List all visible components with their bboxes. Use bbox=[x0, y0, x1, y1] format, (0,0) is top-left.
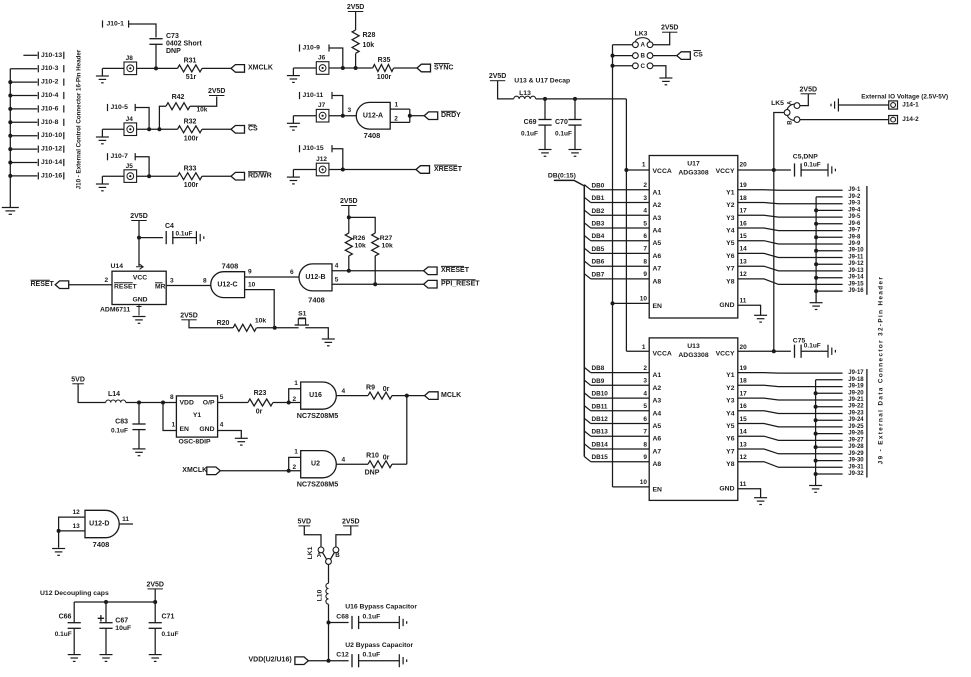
svg-text:A2: A2 bbox=[653, 202, 662, 209]
capacitor C83 bbox=[132, 424, 145, 430]
svg-text:Y5: Y5 bbox=[726, 423, 735, 430]
jumper LK3 A right bbox=[647, 42, 653, 48]
wire U17 Y8 to J9-15 bbox=[738, 279, 843, 285]
port PPI_RESET out bbox=[424, 280, 438, 288]
svg-text:J10-7: J10-7 bbox=[111, 153, 129, 160]
svg-text:Y4: Y4 bbox=[726, 228, 735, 235]
ground at U12-D bbox=[52, 549, 65, 556]
wire C4 to gnd bbox=[173, 237, 197, 239]
ground at Y1 bbox=[235, 438, 248, 445]
wire R35 to port bbox=[394, 67, 417, 69]
junction XMCLK node bbox=[154, 66, 158, 70]
junction J10-5 node bbox=[147, 127, 151, 131]
svg-text:C71: C71 bbox=[162, 613, 175, 620]
wire U17 Y2 to J9-3 bbox=[738, 203, 843, 204]
junction J10 bus J10-6 bbox=[8, 107, 12, 111]
wire J9-10 gnd stub bbox=[816, 250, 843, 252]
svg-text:U12-A: U12-A bbox=[363, 112, 383, 119]
resistor R35 bbox=[373, 65, 394, 72]
wire J9-4 gnd stub bbox=[816, 209, 843, 211]
svg-text:J9 - External Data Connector 3: J9 - External Data Connector 32-Pin Head… bbox=[878, 276, 885, 465]
junction J9 gnd 22 bbox=[814, 405, 818, 409]
svg-text:1: 1 bbox=[294, 380, 298, 387]
svg-text:A4: A4 bbox=[653, 228, 662, 235]
ground at C71 bbox=[149, 655, 162, 662]
wire gnd stem J12 bbox=[292, 170, 294, 178]
connector pin J10-6 bbox=[10, 108, 37, 110]
wire C75 to gnd bbox=[801, 350, 828, 352]
wire net DB13 bbox=[584, 431, 590, 436]
ground at U13 bbox=[754, 498, 767, 505]
svg-text:7408: 7408 bbox=[222, 262, 239, 271]
svg-text:10: 10 bbox=[640, 296, 648, 303]
wire J10-15 down bbox=[332, 149, 343, 170]
svg-text:J10-11: J10-11 bbox=[303, 92, 324, 99]
svg-text:0r: 0r bbox=[383, 455, 390, 462]
wire node to Y1 VDD bbox=[163, 402, 176, 404]
svg-text:B: B bbox=[787, 120, 793, 125]
svg-text:C69: C69 bbox=[524, 119, 537, 126]
svg-text:C68: C68 bbox=[336, 613, 349, 620]
ground at J9 upper bbox=[810, 303, 823, 310]
wire L10 down to C12 bbox=[328, 604, 330, 661]
wire U13 Y5 to J9-25 bbox=[738, 424, 843, 427]
svg-text:14: 14 bbox=[740, 429, 748, 436]
svg-text:J9-27: J9-27 bbox=[848, 437, 864, 443]
wire U12-A pin2 bbox=[390, 121, 410, 123]
svg-text:0.1uF: 0.1uF bbox=[521, 131, 538, 138]
wire net DB9 bbox=[584, 380, 590, 385]
svg-text:R10: R10 bbox=[366, 453, 379, 460]
wire 2V5D to L13 bbox=[498, 81, 514, 99]
svg-text:J9-24: J9-24 bbox=[848, 417, 864, 423]
wire J9-26 gnd stub bbox=[816, 433, 843, 435]
wire net DB0 bbox=[584, 185, 590, 190]
svg-text:19: 19 bbox=[740, 182, 748, 189]
ground sideways at C75 bbox=[828, 345, 835, 358]
svg-text:2: 2 bbox=[643, 182, 647, 189]
svg-text:RD/WR: RD/WR bbox=[248, 173, 272, 180]
inductor L14 bbox=[106, 400, 126, 403]
junction LK3 B bbox=[611, 54, 615, 58]
svg-text:VCC: VCC bbox=[133, 274, 147, 281]
svg-text:A7: A7 bbox=[653, 266, 662, 273]
svg-text:11: 11 bbox=[122, 516, 129, 523]
svg-text:3: 3 bbox=[643, 378, 647, 385]
svg-text:2: 2 bbox=[643, 365, 647, 372]
junction J9 gnd 20 bbox=[814, 391, 818, 395]
wire R10 to MCLK node bbox=[392, 463, 407, 465]
port CS at LK3 bbox=[677, 52, 691, 60]
wire J9-16 gnd stub bbox=[816, 290, 843, 292]
connector J12 bbox=[316, 163, 329, 176]
wire LK3 C to gnd bbox=[653, 66, 666, 78]
wire net DB15 bbox=[584, 457, 590, 462]
svg-text:4: 4 bbox=[643, 208, 647, 215]
wire U14 pin3 to U12-C bbox=[166, 285, 211, 287]
svg-text:R20: R20 bbox=[217, 320, 230, 327]
svg-text:A8: A8 bbox=[653, 461, 662, 468]
wire XMCLK to U2 bbox=[221, 470, 301, 472]
junction R26 pin4 bbox=[347, 269, 351, 273]
jumper LK3 C right bbox=[647, 63, 653, 69]
junction J10-9 node bbox=[341, 66, 345, 70]
jumper LK1 common bbox=[326, 559, 332, 565]
svg-text:8: 8 bbox=[643, 259, 647, 266]
svg-text:J9-9: J9-9 bbox=[848, 241, 861, 247]
svg-text:J10-14: J10-14 bbox=[41, 159, 62, 166]
connector pin J10-2 bbox=[10, 81, 37, 83]
svg-text:Y3: Y3 bbox=[726, 215, 735, 222]
svg-text:2V5D: 2V5D bbox=[146, 581, 164, 588]
svg-text:Y7: Y7 bbox=[726, 449, 735, 456]
wire to C67 bbox=[105, 602, 107, 623]
wire to R27 bbox=[349, 217, 375, 233]
wire J8 to R31 bbox=[137, 67, 178, 69]
wire U17 Y7 to J9-13 bbox=[738, 266, 843, 271]
svg-text:J9-29: J9-29 bbox=[848, 451, 864, 457]
wire LK1 leg A bbox=[323, 552, 327, 559]
port CS out bbox=[231, 126, 245, 134]
svg-text:O/P: O/P bbox=[203, 399, 215, 406]
svg-text:11: 11 bbox=[740, 297, 747, 304]
svg-text:A8: A8 bbox=[653, 278, 662, 285]
svg-text:J10-10: J10-10 bbox=[41, 132, 62, 139]
plus sign C67 bbox=[98, 615, 104, 621]
junction J9 gnd 24 bbox=[814, 418, 818, 422]
wire LK1 leg B bbox=[331, 552, 335, 559]
jumper LK3 B right bbox=[647, 53, 653, 59]
wire U12-A pin1 bbox=[390, 108, 410, 110]
resistor R10 bbox=[368, 461, 392, 468]
resistor R31 bbox=[178, 65, 203, 72]
svg-text:GND: GND bbox=[719, 486, 734, 493]
junction J9 gnd 8 bbox=[814, 235, 818, 239]
junction R20 S1 bbox=[273, 326, 277, 330]
svg-text:Y3: Y3 bbox=[726, 398, 735, 405]
svg-text:2: 2 bbox=[105, 277, 109, 284]
svg-text:J10-6: J10-6 bbox=[41, 105, 59, 112]
wire to Y1 EN bbox=[163, 403, 176, 431]
junction U13 VCCY rail bbox=[772, 349, 776, 353]
svg-text:R9: R9 bbox=[366, 384, 375, 391]
svg-text:5: 5 bbox=[335, 276, 339, 283]
jumper LK5 common bbox=[784, 110, 790, 116]
svg-text:Y6: Y6 bbox=[726, 253, 735, 260]
ground pin arrow U14 GND bbox=[137, 305, 142, 316]
svg-text:NC7SZ08M5: NC7SZ08M5 bbox=[297, 411, 339, 420]
inductor L13 bbox=[514, 96, 536, 99]
svg-text:C83: C83 bbox=[115, 419, 128, 426]
svg-text:18: 18 bbox=[740, 195, 748, 202]
svg-text:J9-28: J9-28 bbox=[848, 444, 864, 450]
wire gnd stem J5 bbox=[101, 176, 103, 184]
jumper LK1 pin B bbox=[333, 547, 339, 553]
wire L13 to rail bbox=[536, 98, 627, 100]
jumper LK1 pin A bbox=[318, 547, 324, 553]
svg-text:Y1: Y1 bbox=[726, 372, 735, 379]
svg-text:0.1uF: 0.1uF bbox=[162, 631, 179, 638]
junction R28 node bbox=[354, 66, 358, 70]
jumper LK3 shunt arc A bbox=[635, 38, 650, 43]
svg-text:2: 2 bbox=[394, 115, 398, 122]
junction C70 bbox=[573, 97, 577, 101]
wire to C83 bbox=[138, 403, 140, 425]
svg-text:CS: CS bbox=[693, 51, 703, 58]
svg-text:LK5: LK5 bbox=[771, 100, 784, 107]
wire 2V5D to LK5 A bbox=[800, 94, 808, 106]
capacitor C73 bbox=[149, 39, 162, 45]
svg-text:RESET: RESET bbox=[114, 284, 138, 291]
svg-text:4: 4 bbox=[643, 390, 647, 397]
wire EN bus to U13 EN bbox=[613, 486, 650, 488]
svg-text:DB1: DB1 bbox=[592, 195, 605, 202]
junction R26 R27 bbox=[347, 215, 351, 219]
svg-text:17: 17 bbox=[740, 390, 748, 397]
svg-text:EN: EN bbox=[653, 487, 663, 494]
wire net DB6 bbox=[584, 261, 590, 266]
op-amp gate U12-D bbox=[85, 510, 119, 537]
svg-text:9: 9 bbox=[248, 268, 252, 275]
port SYNC out bbox=[417, 64, 431, 72]
svg-text:4: 4 bbox=[335, 263, 339, 270]
svg-text:J9-25: J9-25 bbox=[848, 424, 864, 430]
svg-text:J9-5: J9-5 bbox=[848, 214, 861, 220]
wire U13 Y2 to J9-19 bbox=[738, 385, 843, 386]
wire J9-18 gnd stub bbox=[816, 379, 843, 381]
wire C70 to gnd bbox=[574, 125, 576, 149]
svg-text:Y1: Y1 bbox=[726, 189, 735, 196]
svg-text:10k: 10k bbox=[355, 242, 367, 249]
junction J9 gnd 14 bbox=[814, 276, 818, 280]
svg-text:4: 4 bbox=[342, 456, 346, 463]
wire C12 to gnd bbox=[359, 660, 400, 662]
wire J9 even gnd bus upper bbox=[815, 197, 817, 303]
svg-text:17: 17 bbox=[740, 208, 748, 215]
svg-text:7: 7 bbox=[643, 429, 647, 436]
svg-text:Y6: Y6 bbox=[726, 436, 735, 443]
svg-text:SYNC: SYNC bbox=[434, 64, 453, 71]
svg-text:U2 Bypass Capacitor: U2 Bypass Capacitor bbox=[345, 642, 413, 649]
ground sideways at C4 bbox=[196, 231, 203, 244]
wire EN bus to U17 EN bbox=[613, 302, 650, 304]
wire U13 Y7 to J9-29 bbox=[738, 449, 843, 454]
svg-text:OSC-8DIP: OSC-8DIP bbox=[178, 438, 211, 445]
op-amp gate U12-A bbox=[356, 102, 390, 129]
svg-text:DB8: DB8 bbox=[592, 365, 605, 372]
svg-text:2V5D: 2V5D bbox=[208, 88, 226, 95]
svg-text:10: 10 bbox=[248, 282, 256, 289]
jumper LK5 B bbox=[794, 117, 800, 123]
wire U2 pin1 tie bbox=[289, 457, 301, 470]
wire rail to U17 VCCA bbox=[626, 169, 649, 171]
svg-text:J9-10: J9-10 bbox=[848, 248, 864, 254]
connector pin J10-9 bbox=[300, 44, 330, 51]
wire J9-2 gnd stub bbox=[816, 196, 843, 198]
svg-text:7408: 7408 bbox=[93, 540, 110, 549]
wire R23 to U16 bbox=[273, 402, 301, 404]
svg-text:2V5D: 2V5D bbox=[180, 312, 198, 319]
svg-text:ADG3308: ADG3308 bbox=[678, 352, 708, 359]
wire net DB12 bbox=[584, 418, 590, 423]
op-amp gate U16 bbox=[301, 382, 337, 409]
svg-text:DB4: DB4 bbox=[592, 233, 605, 240]
wire net DB8 bbox=[584, 367, 590, 372]
svg-text:13: 13 bbox=[73, 523, 81, 530]
svg-text:DB10: DB10 bbox=[592, 391, 609, 398]
svg-text:0.1uF: 0.1uF bbox=[111, 427, 128, 434]
wire net DB1 bbox=[584, 197, 590, 202]
junction C4 branch bbox=[137, 236, 141, 240]
wire LK3 B to CS port bbox=[653, 55, 677, 57]
svg-text:DNP: DNP bbox=[166, 48, 181, 55]
wire U12-D pin11 stub bbox=[119, 523, 133, 525]
wire Y1 GND to gnd bbox=[218, 431, 242, 439]
svg-text:A: A bbox=[317, 552, 322, 559]
wire net DB11 bbox=[584, 406, 590, 411]
svg-text:10uF: 10uF bbox=[115, 625, 131, 632]
wire J10-5 down bbox=[135, 108, 149, 130]
svg-text:A6: A6 bbox=[653, 253, 662, 260]
wire U17 Y6 to J9-11 bbox=[738, 253, 843, 257]
wire R33 to port bbox=[202, 175, 231, 177]
svg-text:J9-11: J9-11 bbox=[848, 255, 864, 261]
wire U16 pin1 tie bbox=[289, 389, 301, 403]
junction R27 pin5 bbox=[373, 282, 377, 286]
svg-text:DB7: DB7 bbox=[592, 271, 605, 278]
wire C5 to gnd bbox=[801, 169, 828, 171]
svg-text:DB9: DB9 bbox=[592, 378, 605, 385]
connector pin J10-16 bbox=[10, 175, 37, 177]
wire 2V5D to LK1 B bbox=[336, 526, 351, 547]
connector pin J10-12 bbox=[10, 148, 37, 150]
svg-text:0.1uF: 0.1uF bbox=[363, 613, 381, 620]
wire S1 to gnd bbox=[305, 328, 328, 339]
svg-text:20: 20 bbox=[740, 162, 748, 169]
svg-text:Y2: Y2 bbox=[726, 385, 735, 392]
wire C68 to gnd bbox=[359, 622, 400, 624]
wire J7 to U12-A bbox=[329, 115, 356, 117]
wire U2 out to R10 bbox=[336, 463, 368, 465]
svg-text:EN: EN bbox=[653, 303, 663, 310]
svg-text:A2: A2 bbox=[653, 385, 662, 392]
svg-text:J14-1: J14-1 bbox=[902, 102, 919, 109]
svg-text:Y5: Y5 bbox=[726, 240, 735, 247]
svg-text:J9-31: J9-31 bbox=[848, 464, 864, 470]
wire R20 to S1 bbox=[257, 327, 299, 329]
svg-text:Y4: Y4 bbox=[726, 410, 735, 417]
svg-text:J9-4: J9-4 bbox=[848, 207, 861, 213]
svg-text:DB3: DB3 bbox=[592, 221, 605, 228]
svg-text:1: 1 bbox=[172, 422, 176, 429]
wire gnd stem J8 bbox=[101, 68, 103, 76]
svg-text:U13 & U17 Decap: U13 & U17 Decap bbox=[514, 78, 570, 85]
svg-text:16: 16 bbox=[740, 220, 748, 227]
wire J9-32 gnd stub bbox=[816, 473, 843, 475]
svg-text:Y8: Y8 bbox=[726, 278, 735, 285]
svg-text:R32: R32 bbox=[184, 119, 197, 126]
wire net DB2 bbox=[584, 210, 590, 215]
junction U16 pin2 bbox=[287, 401, 291, 405]
wire U12-C pin10 to S1 bbox=[245, 290, 275, 328]
junction EN branch bbox=[161, 401, 165, 405]
svg-text:J4: J4 bbox=[126, 116, 134, 123]
junction C12 bbox=[327, 659, 331, 663]
wire 5VD to LK1 A bbox=[304, 526, 321, 547]
svg-text:13: 13 bbox=[740, 259, 748, 266]
wire J9-28 gnd stub bbox=[816, 446, 843, 448]
wire to C66 bbox=[73, 602, 75, 623]
wire U12-B pin4 to XRESET bbox=[332, 270, 424, 272]
svg-text:DNP: DNP bbox=[365, 470, 380, 477]
wire to C71 bbox=[154, 602, 156, 623]
svg-text:U17: U17 bbox=[687, 161, 700, 168]
svg-text:J9-14: J9-14 bbox=[848, 275, 864, 281]
wire J10 ground bus bbox=[9, 69, 11, 208]
svg-text:12: 12 bbox=[73, 509, 81, 516]
wire U12-D pin13 bbox=[59, 530, 85, 532]
svg-text:12: 12 bbox=[740, 271, 748, 278]
svg-text:J9-13: J9-13 bbox=[848, 268, 864, 274]
svg-text:A4: A4 bbox=[653, 410, 662, 417]
port MCLK out bbox=[425, 392, 439, 400]
junction J10 bus J10-14 bbox=[8, 161, 12, 165]
wire VDD to C12 bbox=[308, 660, 348, 662]
wire to C70 bbox=[574, 99, 576, 120]
wire U13 VCCY to C75 bbox=[738, 350, 791, 352]
wire J6 to R35 bbox=[329, 67, 373, 69]
wire gnd to J5 bbox=[102, 175, 124, 177]
wire RESET to U14 bbox=[69, 284, 112, 286]
svg-text:U2: U2 bbox=[311, 461, 320, 468]
junction C69 bbox=[543, 97, 547, 101]
wire LK1 to L10 bbox=[328, 564, 330, 583]
connector pin J10-14 bbox=[10, 162, 37, 164]
ground sideways at C68 bbox=[399, 616, 406, 629]
wire net DB3 bbox=[584, 223, 590, 228]
svg-text:R28: R28 bbox=[363, 32, 376, 39]
svg-text:J10-16: J10-16 bbox=[41, 172, 62, 179]
svg-text:0r: 0r bbox=[383, 386, 390, 393]
svg-text:DB11: DB11 bbox=[592, 403, 608, 410]
ground at C83 bbox=[133, 449, 146, 456]
svg-text:10k: 10k bbox=[363, 42, 375, 49]
svg-text:5: 5 bbox=[220, 394, 224, 401]
wire C66 to gnd bbox=[73, 628, 75, 654]
svg-text:VCCA: VCCA bbox=[653, 168, 672, 175]
junction J9 gnd 12 bbox=[814, 262, 818, 266]
svg-text:15: 15 bbox=[740, 416, 748, 423]
wire gnd to J6 bbox=[293, 67, 316, 69]
wire to C68 bbox=[329, 622, 349, 624]
wire U17 Y5 to J9-9 bbox=[738, 241, 843, 244]
svg-text:DB14: DB14 bbox=[592, 442, 609, 449]
junction J10 bus J10-16 bbox=[8, 174, 12, 178]
junction J10 bus J10-12 bbox=[8, 147, 12, 151]
junction J9 gnd 16 bbox=[814, 289, 818, 293]
connector J14-2 bbox=[889, 116, 898, 124]
connector pin J10-8 bbox=[10, 121, 37, 123]
svg-text:10k: 10k bbox=[255, 318, 267, 325]
svg-text:J14-2: J14-2 bbox=[902, 116, 919, 123]
junction J10 bus J10-10 bbox=[8, 134, 12, 138]
svg-text:J10-12: J10-12 bbox=[41, 146, 62, 153]
svg-text:External IO Voltage (2.5V-5V): External IO Voltage (2.5V-5V) bbox=[861, 94, 948, 101]
svg-text:J10-2: J10-2 bbox=[41, 79, 59, 86]
svg-text:C5,DNP: C5,DNP bbox=[793, 153, 818, 160]
wire U17 Y4 to J9-7 bbox=[738, 228, 843, 231]
resistor R33 bbox=[178, 173, 203, 180]
